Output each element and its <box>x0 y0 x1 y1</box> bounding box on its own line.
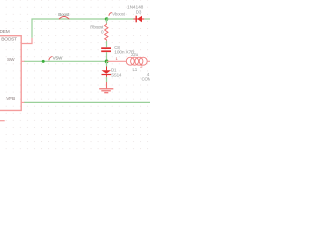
wire SW pin stub (pink) <box>21 60 25 62</box>
capacitor C8 plates <box>101 47 111 52</box>
wire BOOST pin (pink L-segment) <box>21 38 32 44</box>
wire boost net to D3 (green) <box>107 18 134 20</box>
wire stub at left edge (pink) <box>0 120 5 122</box>
wire Rboost to C8 (green) <box>106 41 108 47</box>
svg-text:0: 0 <box>101 29 104 34</box>
net label Vboost flag arc <box>109 13 112 16</box>
svg-text:L1: L1 <box>133 67 138 72</box>
svg-text:BOOST: BOOST <box>1 37 17 43</box>
wire VFB net to right edge (green) <box>24 101 150 103</box>
ground symbol (3 bars) <box>99 89 113 93</box>
wire C8 to SW node (green) <box>106 52 108 61</box>
wire SW node down to D1 (green) <box>106 61 108 66</box>
svg-text:Boost: Boost <box>58 12 70 17</box>
wire boost net vertical+horizontal (green) <box>32 19 107 38</box>
node boost junction dot <box>105 17 109 21</box>
svg-text:VSW: VSW <box>53 56 64 61</box>
IC box outline (partial, cut at left edge) <box>0 36 21 111</box>
wire SW node to L1 (pink) <box>107 60 127 62</box>
wire SW net (green) <box>24 60 106 62</box>
svg-text:C8: C8 <box>114 45 120 50</box>
node SW junction dot <box>105 60 109 64</box>
wire junction to Rboost (green) <box>106 20 108 24</box>
diode D1 symbol (points down, cathode bar bottom) <box>102 70 112 75</box>
resistor Rboost zigzag <box>105 23 108 41</box>
diode D1 lead bottom (red) <box>106 75 108 77</box>
svg-text:SS14: SS14 <box>111 73 122 78</box>
net label Boost flag arc <box>59 17 69 20</box>
diode D1 lead top (red) <box>106 67 108 71</box>
svg-text:Vboost: Vboost <box>112 11 125 16</box>
svg-text:22u: 22u <box>131 52 139 57</box>
svg-text:SW: SW <box>7 57 15 63</box>
wire D1 to ground (green) <box>106 77 108 82</box>
wire L1 to right edge (pink) <box>147 60 150 62</box>
svg-text:COM: COM <box>142 76 151 81</box>
wire VFB pin stub (pink) <box>21 101 25 103</box>
svg-text:VFB: VFB <box>6 96 15 102</box>
wire after D3 to right edge (green) <box>144 18 150 20</box>
diode D3 leads (red) <box>134 18 145 20</box>
diode D3 symbol (points left, cathode bar left) <box>136 16 143 23</box>
svg-text:DEM: DEM <box>0 29 10 35</box>
inductor L1 coil <box>126 57 147 65</box>
net label VSW flag arc <box>49 57 53 61</box>
svg-text:1N4148: 1N4148 <box>127 4 144 10</box>
ground stem (red) <box>106 82 108 88</box>
node VSW anchor dot <box>42 60 45 63</box>
